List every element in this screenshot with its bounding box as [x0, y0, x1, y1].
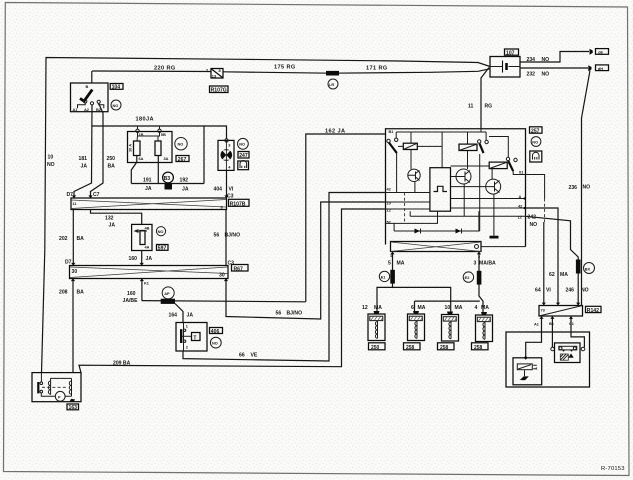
svg-text:JA/BE: JA/BE — [123, 298, 139, 304]
svg-text:181: 181 — [79, 156, 88, 162]
svg-text:R67: R67 — [234, 266, 244, 272]
svg-text:202: 202 — [59, 236, 68, 242]
svg-text:NO: NO — [47, 162, 55, 168]
svg-text:R107B: R107B — [230, 201, 246, 207]
svg-text:104: 104 — [112, 85, 121, 91]
svg-text:A: A — [519, 194, 522, 199]
svg-text:10: 10 — [48, 155, 54, 161]
svg-text:P: P — [58, 394, 61, 399]
svg-text:171 RG: 171 RG — [366, 66, 388, 72]
svg-text:6: 6 — [411, 305, 414, 311]
svg-text:4A: 4A — [145, 245, 150, 250]
svg-text:dH: dH — [598, 66, 603, 71]
svg-text:250: 250 — [371, 345, 380, 351]
svg-text:257: 257 — [531, 128, 540, 134]
svg-text:56: 56 — [276, 311, 282, 317]
svg-text:D7: D7 — [65, 260, 72, 266]
svg-text:160: 160 — [127, 291, 136, 297]
svg-text:220 RG: 220 RG — [154, 66, 176, 72]
svg-text:10: 10 — [387, 201, 391, 206]
svg-text:RG: RG — [485, 104, 493, 110]
svg-text:JA: JA — [81, 164, 88, 170]
svg-text:MA: MA — [397, 261, 405, 267]
svg-text:236: 236 — [569, 185, 578, 191]
svg-text:232: 232 — [527, 72, 536, 78]
svg-text:66: 66 — [239, 353, 245, 359]
svg-text:5: 5 — [388, 261, 391, 267]
svg-text:258: 258 — [406, 345, 415, 351]
svg-text:K1: K1 — [144, 281, 150, 286]
svg-text:R142: R142 — [587, 308, 599, 314]
svg-text:30: 30 — [72, 269, 78, 275]
svg-text:6A: 6A — [139, 156, 144, 161]
svg-text:160: 160 — [129, 256, 138, 262]
svg-text:175 RG: 175 RG — [274, 65, 296, 71]
svg-text:NO: NO — [583, 185, 591, 191]
svg-text:C3: C3 — [227, 194, 234, 200]
svg-text:247: 247 — [239, 153, 248, 159]
svg-text:64: 64 — [535, 288, 541, 294]
svg-text:10: 10 — [445, 305, 451, 311]
svg-text:A1: A1 — [73, 107, 79, 112]
svg-text:NO: NO — [178, 142, 184, 147]
svg-text:NO: NO — [542, 72, 550, 78]
svg-text:z: z — [536, 366, 538, 371]
svg-text:MA: MA — [481, 305, 489, 311]
svg-text:132: 132 — [105, 216, 114, 222]
svg-text:VE: VE — [251, 353, 258, 359]
svg-text:VI: VI — [546, 288, 551, 294]
svg-text:267: 267 — [178, 157, 187, 163]
svg-text:10 A: 10 A — [128, 144, 133, 152]
svg-text:30: 30 — [219, 273, 225, 279]
svg-text:MA: MA — [560, 272, 568, 278]
svg-text:56: 56 — [214, 233, 220, 239]
svg-text:162 JA: 162 JA — [325, 129, 345, 135]
svg-text:107: 107 — [506, 50, 515, 56]
svg-text:NO: NO — [212, 341, 218, 346]
svg-text:C1: C1 — [569, 321, 575, 326]
svg-text:BJ/NO: BJ/NO — [287, 311, 303, 317]
svg-text:164: 164 — [169, 313, 178, 319]
svg-text:D7: D7 — [67, 192, 74, 198]
svg-text:3: 3 — [474, 261, 477, 267]
svg-text:BA: BA — [108, 164, 116, 170]
svg-text:JA: JA — [145, 186, 152, 192]
svg-text:JA: JA — [187, 313, 194, 319]
svg-text:62: 62 — [549, 272, 555, 278]
svg-text:246: 246 — [566, 288, 575, 294]
svg-text:MA: MA — [374, 305, 382, 311]
svg-text:R-70153: R-70153 — [601, 466, 625, 472]
svg-text:NO: NO — [158, 229, 164, 234]
svg-text:MA/BA: MA/BA — [479, 261, 496, 267]
svg-text:VI: VI — [229, 187, 234, 193]
svg-text:A2: A2 — [84, 107, 90, 112]
svg-text:406: 406 — [211, 329, 220, 335]
svg-text:4B: 4B — [145, 226, 150, 231]
svg-text:12: 12 — [362, 305, 368, 311]
svg-text:AP: AP — [164, 291, 170, 296]
svg-text:E1: E1 — [381, 274, 387, 279]
svg-text:LR: LR — [329, 82, 334, 87]
svg-text:258: 258 — [440, 345, 449, 351]
svg-text:404: 404 — [214, 187, 223, 193]
svg-text:191: 191 — [143, 178, 152, 184]
svg-text:192: 192 — [180, 178, 189, 184]
svg-text:JA: JA — [109, 223, 116, 229]
svg-text:BA: BA — [77, 290, 85, 296]
svg-text:4: 4 — [475, 305, 478, 311]
svg-text:209 BA: 209 BA — [113, 361, 131, 367]
svg-text:180JA: 180JA — [136, 117, 154, 123]
svg-text:11: 11 — [468, 104, 474, 110]
svg-text:NO: NO — [239, 142, 245, 147]
svg-text:163: 163 — [69, 405, 78, 411]
svg-text:NO: NO — [530, 222, 538, 228]
svg-text:1B: 1B — [139, 132, 144, 137]
svg-text:258: 258 — [474, 345, 483, 351]
svg-text:B1: B1 — [389, 129, 395, 134]
svg-text:NO: NO — [532, 139, 538, 144]
svg-text:E2: E2 — [465, 275, 471, 280]
svg-text:R107G: R107G — [211, 88, 227, 94]
svg-text:MA: MA — [418, 305, 426, 311]
svg-text:B: B — [86, 84, 89, 89]
svg-text:3A: 3A — [164, 156, 169, 161]
svg-text:BX: BX — [585, 266, 591, 271]
svg-text:NO: NO — [542, 57, 550, 63]
svg-text:JA: JA — [182, 187, 189, 193]
svg-text:BA: BA — [77, 236, 85, 242]
svg-text:NO: NO — [581, 288, 589, 294]
svg-text:MA: MA — [455, 305, 463, 311]
svg-text:208: 208 — [59, 290, 68, 296]
svg-text:242: 242 — [528, 215, 537, 221]
svg-text:250: 250 — [107, 156, 116, 162]
svg-text:B3: B3 — [164, 176, 171, 182]
svg-text:5B: 5B — [161, 132, 166, 137]
svg-text:597: 597 — [158, 246, 167, 252]
svg-text:234: 234 — [527, 57, 536, 63]
svg-text:JA: JA — [146, 256, 153, 262]
svg-text:NO: NO — [113, 103, 119, 108]
svg-text:BJ/NO: BJ/NO — [225, 233, 241, 239]
svg-text:C7: C7 — [93, 192, 100, 198]
svg-text:A1: A1 — [534, 322, 540, 327]
